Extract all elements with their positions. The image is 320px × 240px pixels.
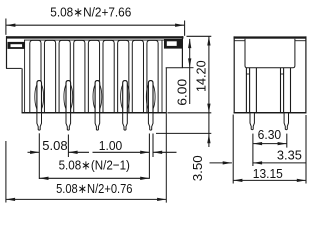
pin 4 front view: [121, 81, 130, 131]
side view pin 2 channel: [281, 68, 291, 130]
front view left clip: [8, 42, 25, 49]
front view right clip: [164, 39, 182, 49]
side view pin 1 channel: [246, 68, 256, 130]
dimension 13.15: [233, 115, 306, 184]
connector front view housing: [6, 36, 184, 113]
svg-text:5.08: 5.08: [42, 138, 67, 153]
pin 3 front view: [93, 81, 102, 131]
svg-text:3.50: 3.50: [190, 155, 205, 181]
dimension 5.08*N/2+0.76: [6, 68, 166, 203]
svg-text:5.08∗(N/2−1): 5.08∗(N/2−1): [59, 157, 130, 172]
pin 5 front view: [146, 81, 155, 131]
dimension 6.30: [253, 127, 287, 166]
svg-text:5.08∗N/2+0.76: 5.08∗N/2+0.76: [56, 181, 132, 196]
svg-text:6.00: 6.00: [175, 79, 190, 106]
dimension 5.08: [28, 133, 90, 157]
dimension 5.08*N/2+7.66: [6, 5, 185, 36]
dimension 5.08*(N/2-1): [39, 157, 149, 180]
svg-text:5.08∗N/2+7.66: 5.08∗N/2+7.66: [50, 5, 131, 20]
front housing bottom edge over pins: [22, 112, 167, 114]
svg-text:14.20: 14.20: [193, 60, 208, 92]
svg-text:1.00: 1.00: [99, 138, 123, 153]
dimension 3.35: [210, 147, 307, 164]
slot openings: [30, 40, 158, 112]
connector side view housing: [234, 36, 307, 113]
svg-text:6.30: 6.30: [258, 127, 282, 142]
svg-text:13.15: 13.15: [253, 166, 283, 181]
side housing bottom edge over pins: [234, 112, 307, 114]
pin 1 front view: [35, 81, 44, 131]
dimension 6.00: [175, 39, 194, 106]
dimension 14.20: [168, 36, 212, 147]
dimension 3.50: [156, 133, 211, 181]
dimension 1.00: [93, 134, 177, 179]
svg-text:3.35: 3.35: [277, 147, 302, 162]
pin 2 front view: [64, 81, 73, 131]
